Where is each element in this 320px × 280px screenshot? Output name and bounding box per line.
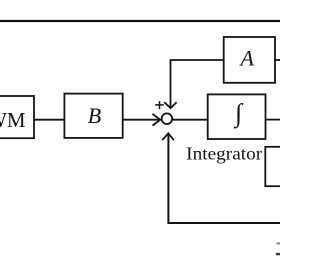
arrowhead into junction from left — [153, 114, 161, 126]
plus sign — [155, 104, 164, 106]
block A — [224, 37, 275, 83]
svg-text:A: A — [238, 45, 254, 70]
summing junction — [162, 113, 173, 124]
svg-text:B: B — [88, 103, 101, 128]
block B — [64, 94, 122, 138]
feedback wire from bottom right up into junction — [168, 133, 280, 223]
wire PWM to B — [34, 119, 64, 121]
arrowhead down into junction — [164, 102, 176, 108]
arrowhead up into junction from below — [162, 133, 174, 140]
wire B to summing junction — [123, 119, 160, 121]
wire junction to integrator — [172, 119, 208, 121]
top rule — [0, 20, 280, 22]
block integrator — [208, 94, 266, 139]
block PWM (cut off at left edge) — [0, 96, 34, 138]
partial label at right edge (upper dash) — [277, 242, 281, 244]
block at right edge (cut off) — [265, 147, 290, 186]
svg-text:PWM: PWM — [0, 108, 26, 132]
partial label at right edge (lower dash) — [276, 253, 280, 255]
wire integrator output to right edge — [266, 119, 281, 121]
feedback wire from A down into junction — [171, 60, 224, 108]
svg-text:Integrator: Integrator — [186, 143, 262, 163]
wire A output to right edge — [275, 59, 280, 61]
